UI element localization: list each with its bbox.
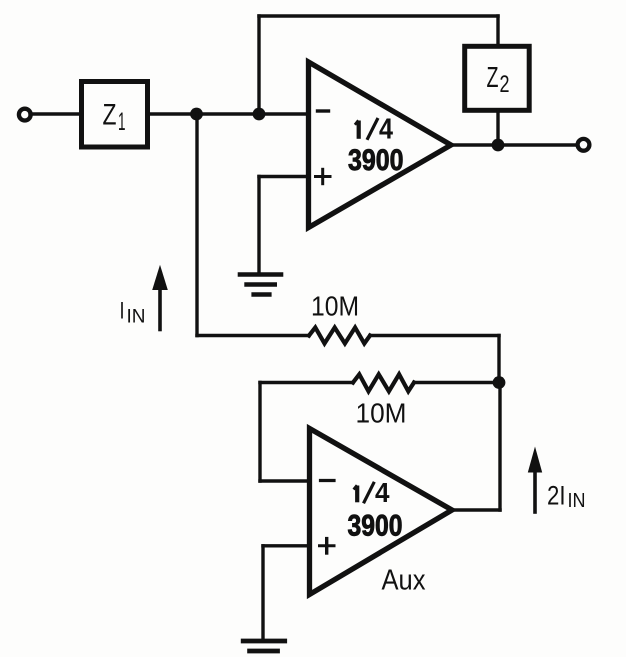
wire feedback left segment (aux) bbox=[260, 381, 353, 384]
input terminal bbox=[19, 109, 31, 121]
svg-text:10M: 10M bbox=[356, 398, 407, 429]
resistor 10M (upper) bbox=[309, 328, 370, 344]
op-amp U2 (1/4 3900 Aux) bbox=[310, 429, 453, 595]
node B (U1 inverting input node) bbox=[253, 108, 266, 121]
wire to ground 1 bbox=[257, 177, 260, 273]
svg-text:Aux: Aux bbox=[382, 565, 426, 597]
impedance Z1 bbox=[82, 82, 148, 148]
wire down to node D bbox=[497, 336, 500, 383]
wire node B up to feedback rail bbox=[257, 16, 260, 114]
svg-text:IN: IN bbox=[127, 307, 146, 328]
svg-text:3900: 3900 bbox=[348, 510, 403, 543]
svg-text:I: I bbox=[120, 298, 125, 325]
svg-text:10M: 10M bbox=[311, 291, 359, 322]
node A (input summing node) bbox=[190, 108, 203, 121]
wire input to Z1 bbox=[30, 112, 80, 115]
wire down to U2 inverting input bbox=[258, 383, 261, 482]
impedance Z2 bbox=[465, 46, 530, 110]
U1 minus sign bbox=[318, 109, 329, 112]
node C (output node) bbox=[492, 139, 505, 152]
svg-text:Z: Z bbox=[487, 62, 499, 94]
node D bbox=[493, 376, 506, 389]
wire U2 inverting input bbox=[260, 479, 310, 482]
wire U2 output bbox=[452, 508, 500, 511]
wire feedback top rail bbox=[259, 14, 498, 17]
op-amp U1 (1/4 3900) bbox=[309, 62, 452, 228]
wire U1 output to terminal bbox=[451, 143, 578, 146]
svg-text:2: 2 bbox=[500, 71, 510, 98]
svg-text:3900: 3900 bbox=[348, 144, 404, 177]
U2 minus sign bbox=[321, 479, 335, 482]
wire U2 non-inverting input bbox=[263, 544, 310, 547]
U2 plus sign bbox=[320, 544, 335, 547]
U1 plus sign bbox=[316, 175, 331, 178]
wire resistor to right corner bbox=[370, 334, 499, 337]
wire to ground 2 bbox=[261, 546, 264, 639]
svg-text:4: 4 bbox=[375, 477, 390, 508]
output terminal bbox=[578, 139, 590, 151]
wire node A down to lower rail bbox=[195, 114, 198, 336]
svg-text:4: 4 bbox=[379, 114, 393, 146]
wire U1 non-inverting input bbox=[259, 175, 309, 178]
svg-text:1: 1 bbox=[118, 108, 126, 136]
label U1 1/4 bbox=[357, 121, 361, 139]
wire output up to node D bbox=[498, 383, 501, 511]
resistor 10M (lower, aux feedback) bbox=[353, 374, 414, 391]
arrow 2I_IN bbox=[528, 447, 542, 513]
wire Z2 bottom to output node bbox=[496, 110, 499, 145]
svg-text:IN: IN bbox=[568, 490, 586, 512]
label U2 1/4 bbox=[355, 486, 359, 503]
svg-text:2I: 2I bbox=[547, 481, 566, 511]
ground 1 bbox=[240, 275, 281, 295]
svg-text:Z: Z bbox=[103, 99, 117, 132]
arrow I_IN bbox=[152, 265, 168, 330]
ground 2 bbox=[243, 641, 285, 651]
wire lower rail left segment bbox=[197, 334, 309, 337]
wire resistor to node D bbox=[414, 381, 499, 384]
wire Z1 to op-amp U1 inverting input bbox=[150, 112, 309, 115]
wire rail down to Z2 top bbox=[496, 16, 499, 46]
